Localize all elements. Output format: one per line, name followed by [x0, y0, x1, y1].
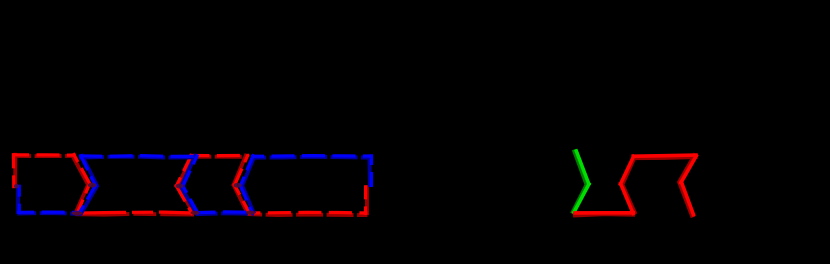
left folded ribbon: blue strand (dashed) — [17, 154, 373, 215]
overlap knots where red and blue strands cross — [14, 183, 255, 215]
left folded ribbon: red strand (dashed) — [12, 153, 368, 215]
right strand: red zigzag path — [573, 154, 698, 218]
right strand: green chevron fold — [572, 149, 590, 214]
